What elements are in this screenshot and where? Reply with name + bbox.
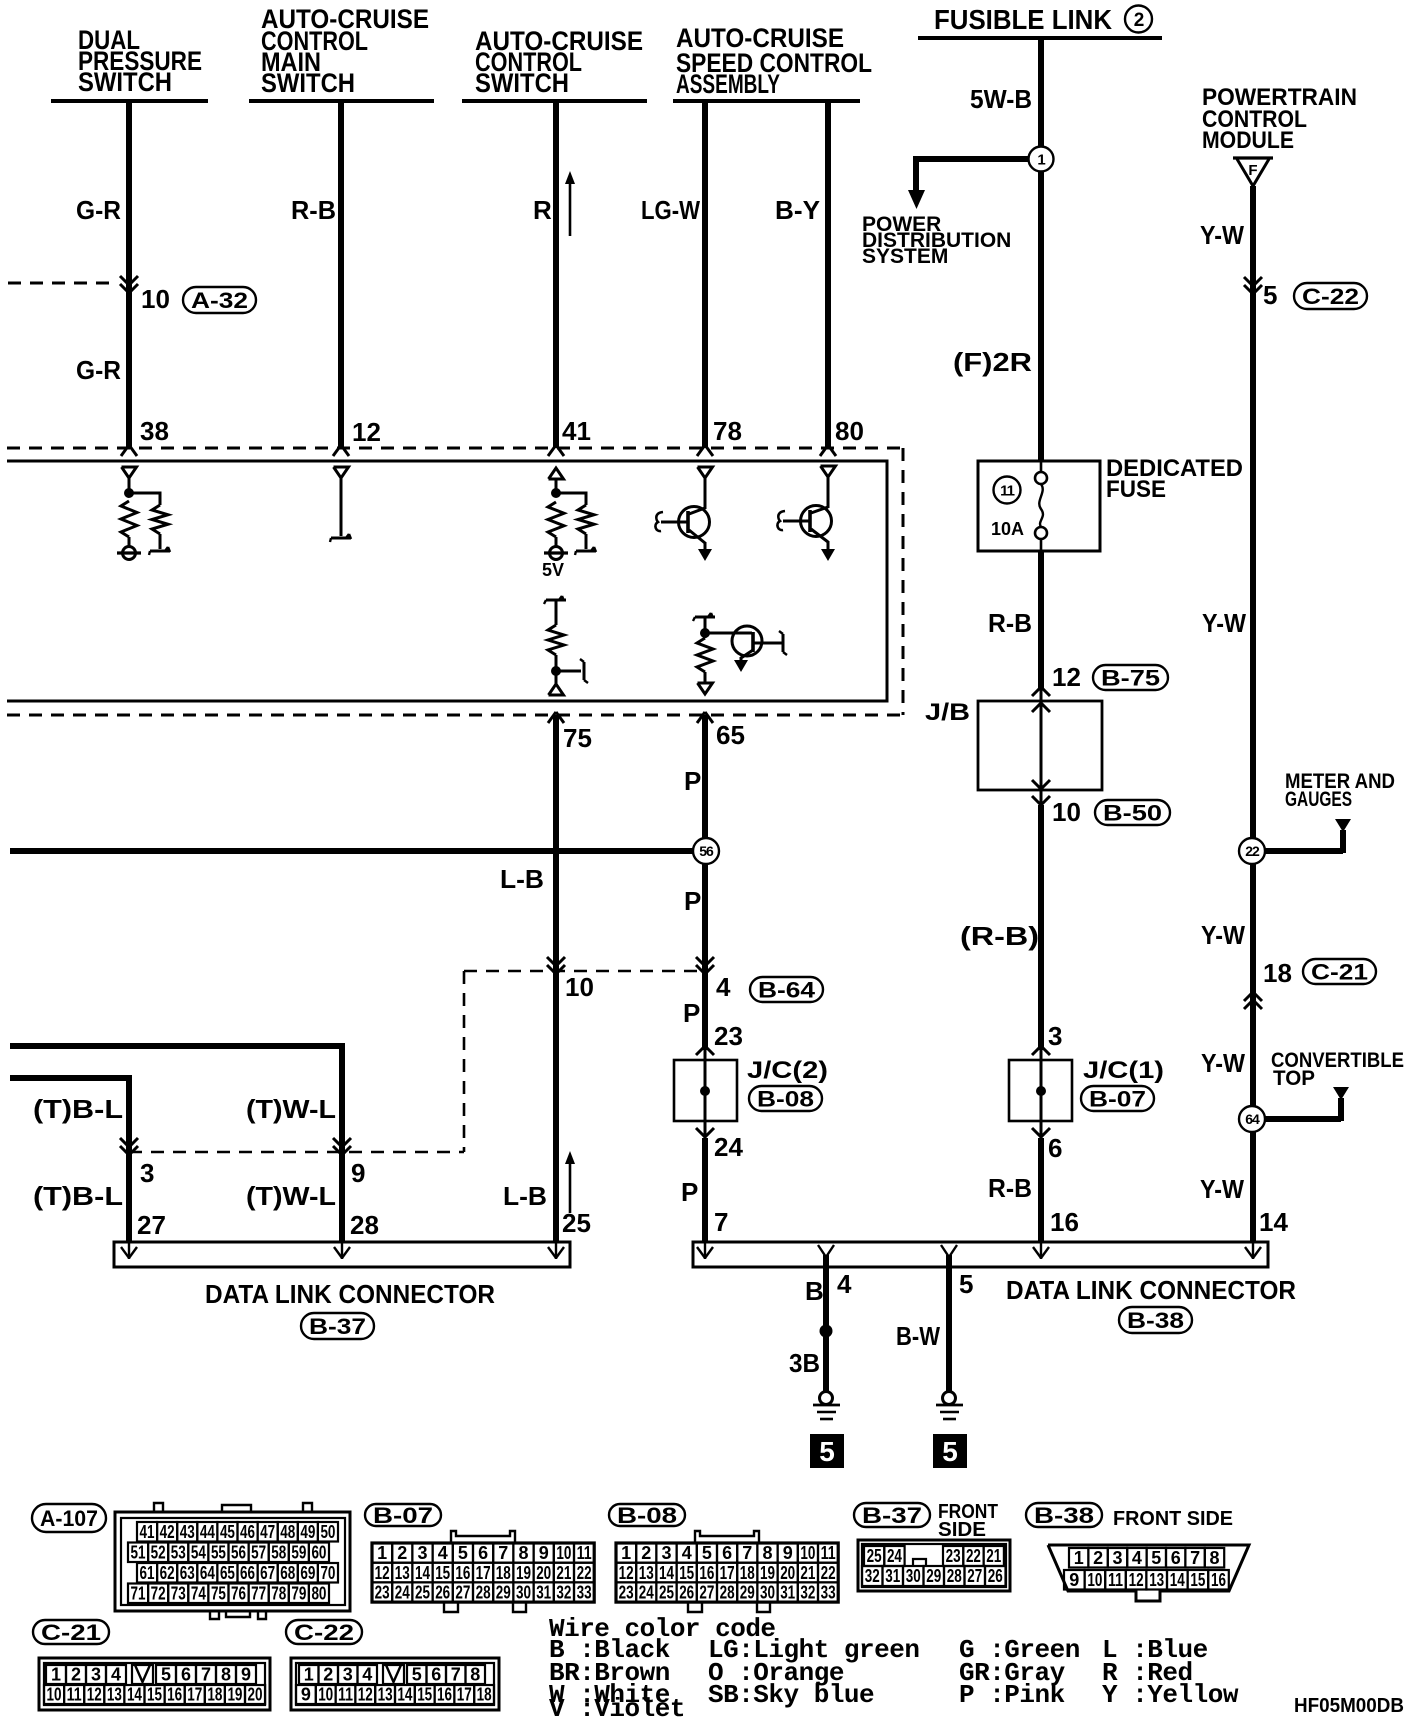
svg-text:B-37: B-37: [862, 1503, 922, 1528]
svg-text:J/C(2): J/C(2): [747, 1057, 828, 1084]
wire (T)B-L horizontal from left: [10, 1078, 129, 1242]
internal wire pin78 collector: [704, 478, 707, 509]
svg-text:18: 18: [477, 1685, 492, 1705]
svg-text:41: 41: [140, 1522, 155, 1542]
in-line connector chevron at pin 10 (A-32): [120, 276, 138, 285]
svg-text:12: 12: [1129, 1570, 1144, 1590]
fuse internal stub (bottom): [1040, 539, 1043, 551]
svg-text:46: 46: [240, 1522, 255, 1542]
svg-text:15: 15: [417, 1685, 432, 1705]
svg-text:1: 1: [377, 1543, 387, 1563]
svg-text:12: 12: [87, 1685, 102, 1705]
svg-text:16: 16: [437, 1685, 452, 1705]
svg-text:B-Y: B-Y: [775, 195, 820, 225]
svg-text:1: 1: [1074, 1548, 1084, 1568]
svg-text:61: 61: [140, 1563, 155, 1583]
svg-text:64: 64: [1245, 1111, 1260, 1127]
svg-text:5: 5: [458, 1543, 468, 1563]
connector B-37 pinout drawing: [858, 1540, 1010, 1591]
svg-text:19: 19: [760, 1563, 775, 1583]
pin exit mark at pin 75: [548, 712, 564, 723]
svg-text:74: 74: [191, 1583, 206, 1603]
arrow into power distribution system: [908, 190, 925, 209]
wire B from DLC pin 4: [823, 1255, 829, 1392]
svg-text:17: 17: [457, 1685, 472, 1705]
internal node triangle at pin 75 (up): [549, 684, 564, 695]
internal wire: [128, 537, 131, 547]
svg-text:12: 12: [358, 1685, 373, 1705]
svg-text:FRONT SIDE: FRONT SIDE: [1113, 1508, 1233, 1530]
svg-text:B-W: B-W: [896, 1321, 940, 1351]
svg-text:5: 5: [1151, 1548, 1161, 1568]
svg-text:23: 23: [375, 1582, 390, 1602]
pin 25 termination arrow: [548, 1243, 564, 1259]
svg-text:10: 10: [47, 1685, 62, 1705]
svg-text:28: 28: [947, 1566, 962, 1586]
svg-text:4: 4: [438, 1543, 448, 1563]
internal node triangle at pin 12: [334, 467, 349, 478]
svg-text:A-32: A-32: [191, 288, 248, 313]
internal wire pin80 collector: [827, 477, 830, 508]
svg-text:SYSTEM: SYSTEM: [862, 245, 948, 268]
svg-text:24: 24: [714, 1132, 743, 1162]
internal node triangle at pin 38: [122, 467, 137, 478]
component FUSIBLE LINK label: [934, 4, 1112, 35]
terminal bar: auto-cruise speed control assembly: [673, 99, 860, 103]
internal node triangle at pin 80: [821, 466, 836, 477]
resistor R-d (pin41 branch): [578, 505, 594, 534]
internal wire: [704, 672, 707, 684]
svg-text:2: 2: [641, 1543, 651, 1563]
pin exit mark at pin 65: [697, 712, 713, 723]
svg-text:68: 68: [280, 1563, 295, 1583]
svg-text:22: 22: [821, 1563, 836, 1583]
svg-text:24: 24: [395, 1582, 410, 1602]
junction circle 56 on wire P / horizontal bus: [693, 838, 719, 864]
svg-text:18: 18: [740, 1563, 755, 1583]
pin 4 pass-through mark: [818, 1245, 834, 1257]
svg-text:11: 11: [1000, 482, 1015, 499]
internal wire: [555, 600, 558, 625]
svg-text:5V: 5V: [542, 560, 564, 580]
svg-text:75: 75: [563, 723, 592, 753]
svg-text:B-64: B-64: [758, 977, 816, 1002]
svg-text:30: 30: [760, 1582, 775, 1602]
svg-text:B-07: B-07: [373, 1503, 433, 1528]
transistor Q3 (pin 65): [732, 626, 787, 672]
svg-text:P: P: [683, 998, 700, 1028]
internal wire: [159, 534, 162, 549]
svg-text:26: 26: [435, 1582, 450, 1602]
svg-text:50: 50: [320, 1522, 335, 1542]
svg-text:18: 18: [1263, 958, 1292, 988]
svg-text:C-21: C-21: [1311, 959, 1368, 984]
svg-text:23: 23: [946, 1546, 961, 1566]
svg-text:75: 75: [211, 1583, 226, 1603]
wire R-B through J/C(1) (thin): [1040, 1050, 1043, 1138]
svg-text:16: 16: [167, 1685, 182, 1705]
svg-text:14: 14: [659, 1563, 674, 1583]
svg-text:19: 19: [227, 1685, 242, 1705]
wire color code legend: [549, 1614, 1239, 1718]
svg-text:28: 28: [350, 1210, 379, 1240]
terminal bar: dual pressure switch: [51, 99, 208, 103]
svg-text:MODULE: MODULE: [1202, 127, 1294, 154]
internal circuit end bar: [149, 547, 170, 555]
svg-text:8: 8: [762, 1543, 772, 1563]
svg-text:57: 57: [251, 1542, 266, 1562]
junction circle 1 on 5W-B wire: [1029, 147, 1054, 172]
svg-text:30: 30: [516, 1582, 531, 1602]
connector code B-38: [1119, 1307, 1192, 1333]
svg-text:P: P: [684, 766, 701, 796]
svg-text:51: 51: [131, 1542, 146, 1562]
pin 14 termination arrow: [1245, 1243, 1261, 1259]
svg-text:LG-W: LG-W: [641, 195, 700, 225]
svg-text:10: 10: [565, 972, 594, 1002]
svg-text:10A: 10A: [991, 519, 1024, 539]
svg-text:5: 5: [819, 1436, 835, 1467]
svg-text:5: 5: [412, 1665, 422, 1685]
pin 5 pass-through mark: [941, 1245, 957, 1257]
svg-text:FUSE: FUSE: [1106, 476, 1166, 503]
resistor R-a (pin38 pull-down): [121, 501, 137, 537]
connector code B-08 (inline): [749, 1086, 822, 1111]
wire P through J/C(2) (thin): [704, 1050, 707, 1138]
svg-text:17: 17: [187, 1685, 202, 1705]
junction dot pin65 node: [700, 628, 710, 638]
svg-text:27: 27: [967, 1566, 982, 1586]
internal circuit end bar: [575, 547, 596, 555]
svg-text:18: 18: [496, 1563, 511, 1583]
svg-text:DATA LINK CONNECTOR: DATA LINK CONNECTOR: [1006, 1275, 1296, 1305]
svg-text:29: 29: [740, 1582, 755, 1602]
internal wire pin12: [340, 478, 343, 536]
svg-text:4: 4: [837, 1269, 852, 1299]
internal wire pin38: [128, 478, 131, 492]
svg-text:43: 43: [180, 1522, 195, 1542]
svg-text:R-B: R-B: [291, 195, 336, 225]
svg-text:HF05M00DB: HF05M00DB: [1294, 1695, 1404, 1717]
svg-text:31: 31: [780, 1582, 795, 1602]
svg-text:23: 23: [714, 1021, 743, 1051]
svg-text:R-B: R-B: [988, 608, 1032, 638]
svg-text:64: 64: [200, 1563, 215, 1583]
svg-text:12: 12: [619, 1563, 634, 1583]
DATA LINK CONNECTOR B-37 bar: [114, 1242, 570, 1267]
pin 7 termination arrow: [697, 1243, 713, 1259]
svg-text:14: 14: [397, 1685, 412, 1705]
svg-text:B-38: B-38: [1127, 1308, 1184, 1333]
wire inside J/B: [1040, 701, 1043, 806]
svg-text:65: 65: [716, 720, 745, 750]
dashed harness line at B-64: [464, 970, 698, 973]
svg-text:7: 7: [1190, 1548, 1200, 1568]
svg-text:5: 5: [959, 1269, 973, 1299]
svg-text:18: 18: [207, 1685, 222, 1705]
svg-text:30: 30: [906, 1566, 921, 1586]
svg-text:10: 10: [800, 1543, 815, 1563]
resistor R-c (pin41): [548, 502, 564, 537]
svg-text:6: 6: [722, 1543, 732, 1563]
pin 16 termination arrow: [1033, 1243, 1049, 1259]
svg-text:10: 10: [556, 1543, 571, 1563]
svg-text:16: 16: [699, 1563, 714, 1583]
svg-text:22: 22: [577, 1563, 592, 1583]
svg-text:58: 58: [271, 1542, 286, 1562]
component AUTO-CRUISE CONTROL MAIN SWITCH label: [261, 4, 429, 98]
svg-text:66: 66: [240, 1563, 255, 1583]
svg-text:53: 53: [171, 1542, 186, 1562]
svg-text:(F)2R: (F)2R: [953, 347, 1032, 377]
junction connector chevron below J/C(2): [696, 1128, 714, 1137]
harness dashed boundary (right): [902, 448, 905, 715]
svg-text:80: 80: [311, 1583, 326, 1603]
signal direction arrow (up) beside wire R: [565, 171, 575, 236]
pin entry mark at x=556 into ECU: [548, 445, 564, 456]
svg-text:6: 6: [478, 1543, 488, 1563]
internal top end bar (pin65 chain): [693, 613, 715, 621]
svg-text:52: 52: [151, 1542, 166, 1562]
in-line connector chevron at pin 18 (C-21): [1244, 1000, 1262, 1009]
svg-text:12: 12: [375, 1563, 390, 1583]
splice dot on ground wire: [820, 1325, 833, 1338]
internal node triangle at pin 41 (up): [549, 468, 564, 479]
svg-text:4: 4: [362, 1665, 372, 1685]
svg-text:Y :Yellow: Y :Yellow: [1102, 1680, 1239, 1710]
svg-text:15: 15: [147, 1685, 162, 1705]
svg-text:16: 16: [1050, 1207, 1079, 1237]
svg-text:11: 11: [67, 1685, 82, 1705]
svg-text:60: 60: [311, 1542, 326, 1562]
component AUTO-CRUISE SPEED CONTROL ASSEMBLY label: [676, 23, 872, 99]
svg-text:SB:Sky blue: SB:Sky blue: [708, 1680, 874, 1710]
svg-text:B: B: [805, 1276, 824, 1306]
internal top end bar (pin75 chain): [544, 596, 566, 604]
svg-text:TOP: TOP: [1273, 1067, 1315, 1090]
connector code C-21 (pinout): [33, 1620, 109, 1645]
svg-text:28: 28: [476, 1582, 491, 1602]
svg-text:14: 14: [1259, 1207, 1288, 1237]
connector code B-37: [301, 1313, 374, 1339]
svg-text:4: 4: [682, 1543, 692, 1563]
svg-text:8: 8: [470, 1665, 480, 1685]
svg-text:55: 55: [211, 1542, 226, 1562]
pin 27 termination arrow: [121, 1243, 137, 1259]
component AUTO-CRUISE CONTROL SWITCH label: [475, 26, 643, 98]
svg-text:33: 33: [821, 1582, 836, 1602]
svg-text:13: 13: [378, 1685, 393, 1705]
svg-text:13: 13: [107, 1685, 122, 1705]
svg-text:28: 28: [720, 1582, 735, 1602]
harness dashed boundary (bottom): [7, 714, 903, 717]
svg-text:7: 7: [742, 1543, 752, 1563]
wire R-B to DLC pin16 (lower): [1038, 1138, 1044, 1242]
svg-text:10: 10: [1087, 1570, 1102, 1590]
wire R-B fuse to J/B: [1038, 551, 1044, 689]
svg-text:24: 24: [639, 1582, 654, 1602]
svg-text:54: 54: [191, 1542, 206, 1562]
svg-text:31: 31: [885, 1566, 900, 1586]
svg-text:56: 56: [231, 1542, 246, 1562]
svg-text:41: 41: [562, 416, 591, 446]
branch wire to power distribution system: [916, 156, 1028, 191]
svg-text:R: R: [533, 195, 552, 225]
connector B-38 pinout drawing: [1048, 1545, 1249, 1601]
svg-text:32: 32: [865, 1566, 880, 1586]
svg-text:B-37: B-37: [309, 1314, 366, 1339]
resistor R-b (pin38 branch): [152, 505, 168, 534]
connector A-107 pinout drawing: [115, 1503, 350, 1619]
connector B-07 pinout drawing: [372, 1531, 594, 1612]
svg-text:B-08: B-08: [757, 1086, 814, 1111]
joint connector J/C(2) box: [674, 1060, 737, 1121]
resistor R-f (pin65): [697, 638, 713, 672]
svg-text:1: 1: [1037, 151, 1045, 168]
PCM fuse symbol F triangle: [1233, 158, 1273, 186]
dashed harness line at connector A-32: [8, 282, 118, 285]
svg-text:14: 14: [127, 1685, 142, 1705]
label DEDICATED FUSE: [1106, 455, 1243, 503]
wire P pin65 to DLC pin7 (lower): [702, 1138, 708, 1242]
wire R-B from main switch pin 12 (x=341): [338, 101, 344, 448]
svg-text:24: 24: [887, 1546, 902, 1566]
junction connector chevron below J/C(1): [1032, 1128, 1050, 1137]
svg-text:5: 5: [161, 1665, 171, 1685]
svg-text:17: 17: [476, 1563, 491, 1583]
svg-text:P: P: [681, 1177, 698, 1207]
ground reference box 5 (pin4): [810, 1434, 844, 1468]
wire R from cruise control switch pin 41 (x=556): [553, 101, 559, 448]
svg-text:5W-B: 5W-B: [970, 84, 1032, 114]
dashed harness line through pins 3 and 9: [129, 1151, 464, 1154]
svg-text:2: 2: [71, 1665, 81, 1685]
svg-text:B-75: B-75: [1101, 665, 1160, 690]
svg-text:V :Violet: V :Violet: [549, 1694, 685, 1718]
svg-text:9: 9: [783, 1543, 793, 1563]
svg-text:G-R: G-R: [76, 355, 121, 385]
label CONVERTIBLE TOP: [1271, 1049, 1404, 1090]
svg-text:10: 10: [318, 1685, 333, 1705]
junction circle 22 on Y-W wire: [1239, 838, 1265, 864]
ground reference box 5 (pin5): [933, 1434, 967, 1468]
svg-text:SWITCH: SWITCH: [78, 67, 172, 97]
wire R-B J/B to J/C(1): [1038, 805, 1044, 1050]
svg-text:B-50: B-50: [1103, 800, 1162, 825]
branch wire to meter and gauges: [1265, 830, 1343, 853]
signal direction arrow (up) beside pin 25: [565, 1151, 575, 1213]
svg-text:A-107: A-107: [40, 1506, 98, 1531]
svg-text:4: 4: [111, 1665, 121, 1685]
joint connector J/C(1) box: [1009, 1060, 1072, 1121]
svg-text:B-38: B-38: [1034, 1503, 1094, 1528]
svg-text:65: 65: [220, 1563, 235, 1583]
svg-text:7: 7: [451, 1665, 461, 1685]
component POWERTRAIN CONTROL MODULE label: [1202, 84, 1357, 154]
internal wire: [585, 534, 588, 549]
in-line connector chevron at pin 10 (wire L-B): [547, 957, 565, 966]
svg-text:5: 5: [942, 1436, 958, 1467]
svg-text:G-R: G-R: [76, 195, 121, 225]
svg-text:7: 7: [714, 1207, 728, 1237]
connector code A-32: [183, 287, 256, 313]
svg-text:78: 78: [713, 416, 742, 446]
svg-text:9: 9: [539, 1543, 549, 1563]
svg-text:72: 72: [151, 1583, 166, 1603]
svg-text:3: 3: [661, 1543, 671, 1563]
internal wire: [555, 537, 558, 547]
svg-text:17: 17: [720, 1563, 735, 1583]
internal wire: [555, 655, 558, 684]
svg-text:77: 77: [251, 1583, 266, 1603]
svg-text:73: 73: [171, 1583, 186, 1603]
svg-text:2: 2: [323, 1665, 333, 1685]
wire B-Y from speed control assembly pin 80 (x=828): [825, 101, 831, 448]
wire G-R from dual pressure switch pin (x=129): [126, 101, 132, 448]
svg-text:27: 27: [455, 1582, 470, 1602]
fuse number circle 11: [994, 477, 1021, 504]
svg-text:13: 13: [1149, 1570, 1164, 1590]
svg-text:C-21: C-21: [41, 1620, 101, 1645]
svg-text:21: 21: [800, 1563, 815, 1583]
svg-text:3B: 3B: [789, 1348, 820, 1378]
connector C-22 pinout drawing: [291, 1658, 499, 1710]
pin entry mark at x=129 into ECU: [121, 445, 137, 456]
connector chevrons at J/B top: [1032, 687, 1050, 696]
ground terminal circle (pin5): [943, 1392, 956, 1405]
svg-text:70: 70: [320, 1563, 335, 1583]
svg-text:56: 56: [699, 843, 714, 859]
terminal bar: auto-cruise control main switch: [249, 99, 434, 103]
svg-text:1: 1: [621, 1543, 631, 1563]
svg-text:22: 22: [1245, 843, 1260, 859]
svg-text:14: 14: [1170, 1570, 1185, 1590]
wire P pin65 to DLC pin7 (upper): [702, 715, 708, 1050]
svg-text:67: 67: [260, 1563, 275, 1583]
svg-text:76: 76: [231, 1583, 246, 1603]
internal node triangle at pin 65 (down): [698, 683, 713, 694]
svg-text:3: 3: [91, 1665, 101, 1685]
DATA LINK CONNECTOR B-38 bar: [693, 1242, 1268, 1267]
chassis ground symbol (pin4): [813, 1405, 840, 1419]
svg-text:1: 1: [304, 1665, 314, 1685]
svg-text:4: 4: [1132, 1548, 1142, 1568]
junction connector chevron above J/C(1): [1032, 1046, 1050, 1055]
svg-text:31: 31: [536, 1582, 551, 1602]
svg-text:5: 5: [1263, 280, 1277, 310]
bias terminal circle (pin38): [117, 547, 141, 560]
svg-text:13: 13: [639, 1563, 654, 1583]
svg-text:32: 32: [556, 1582, 571, 1602]
svg-text:(R-B): (R-B): [960, 921, 1039, 951]
svg-text:49: 49: [300, 1522, 315, 1542]
svg-text:80: 80: [835, 416, 864, 446]
svg-text:3: 3: [1112, 1548, 1122, 1568]
svg-text:B-08: B-08: [617, 1503, 677, 1528]
terminal bar: auto-cruise control switch: [462, 99, 647, 103]
svg-text:B-07: B-07: [1089, 1086, 1146, 1111]
connector C-21 pinout drawing: [39, 1658, 270, 1710]
connector code B-07 (pinout): [365, 1503, 441, 1528]
svg-text:19: 19: [516, 1563, 531, 1583]
junction dot pin38 node: [124, 488, 134, 498]
svg-text:DATA LINK CONNECTOR: DATA LINK CONNECTOR: [205, 1279, 495, 1309]
arrow from convertible top: [1333, 1087, 1349, 1100]
svg-text:42: 42: [160, 1522, 175, 1542]
svg-text:C-22: C-22: [294, 1620, 354, 1645]
svg-text:Y-W: Y-W: [1200, 220, 1244, 250]
svg-text:R-B: R-B: [988, 1173, 1032, 1203]
